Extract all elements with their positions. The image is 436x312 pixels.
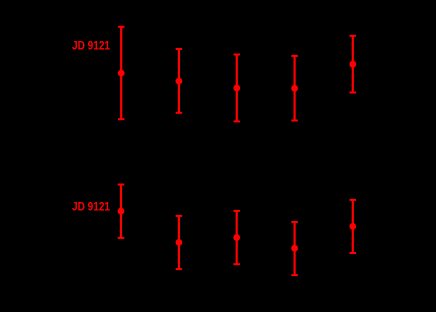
error bar point 5 bottom panel <box>349 200 356 253</box>
svg-text:JD 9121: JD 9121 <box>72 39 110 53</box>
error bar point 4 top panel <box>291 56 298 121</box>
error bar point 2 top panel <box>176 49 183 113</box>
error bar point 4 bottom panel <box>291 222 298 275</box>
error bar point 1 top panel <box>118 27 125 119</box>
error bar point 3 top panel <box>233 55 240 122</box>
svg-text:JD 9121: JD 9121 <box>72 199 110 213</box>
error bar point 5 top panel <box>349 36 356 93</box>
error bar point 1 bottom panel <box>118 185 125 238</box>
error bar point 2 bottom panel <box>176 216 183 269</box>
error bar point 3 bottom panel <box>233 211 240 264</box>
